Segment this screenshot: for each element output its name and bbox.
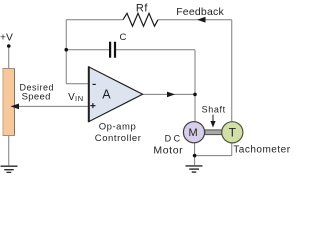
svg-text:A: A <box>102 88 111 102</box>
svg-text:Tachometer: Tachometer <box>233 145 290 156</box>
svg-text:T: T <box>229 125 237 139</box>
svg-text:Speed: Speed <box>22 91 51 102</box>
svg-text:D C: D C <box>165 134 181 144</box>
svg-text:IN: IN <box>75 94 84 103</box>
svg-text:Shaft: Shaft <box>202 105 226 115</box>
svg-text:Controller: Controller <box>95 133 142 144</box>
svg-text:Motor: Motor <box>153 145 183 157</box>
svg-text:C: C <box>120 32 127 43</box>
svg-text:Feedback: Feedback <box>176 6 224 18</box>
svg-text:Rf: Rf <box>136 2 148 14</box>
svg-text:+V: +V <box>0 32 13 43</box>
svg-text:M: M <box>189 127 198 139</box>
svg-text:Op-amp: Op-amp <box>99 122 137 133</box>
